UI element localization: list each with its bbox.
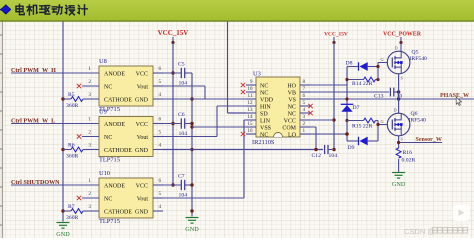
svg-text:VCC: VCC [136, 71, 148, 77]
svg-text:VCC_15V: VCC_15V [324, 32, 348, 38]
svg-text:1: 1 [88, 66, 91, 72]
junction C6/gnd [190, 122, 193, 125]
optocoupler U8 TLP715 [82, 58, 163, 113]
svg-text:VS: VS [288, 97, 296, 103]
svg-text:VSS: VSS [260, 125, 271, 131]
wire U3 VB row [310, 91, 389, 93]
wire gnd bus row y=149.5 [163, 149, 323, 151]
wire SD from top to U3 SD [228, 22, 247, 114]
svg-text:R14 22R: R14 22R [352, 81, 373, 87]
svg-text:12: 12 [247, 100, 253, 106]
svg-text:IRF540: IRF540 [410, 56, 428, 62]
svg-text:G: G [381, 57, 384, 62]
wire VCC_POWER to Q5 drain [395, 43, 402, 52]
junction C5/gnd [190, 97, 193, 100]
svg-text:NC: NC [104, 84, 112, 90]
power port VCC_15V (left) [158, 29, 189, 44]
svg-text:VCC_15V: VCC_15V [158, 29, 189, 37]
resistor R7 360R [63, 204, 99, 221]
svg-text:C13: C13 [374, 93, 384, 99]
svg-text:ANODE: ANODE [104, 183, 125, 189]
wire Ctrl_PWM_W_H to U8 pin1 [11, 72, 99, 74]
junction phase column [397, 97, 400, 100]
svg-text:3: 3 [303, 114, 306, 120]
svg-text:PHASE_W: PHASE_W [440, 93, 469, 99]
resistor R16 0.02R [396, 148, 415, 172]
gnd rail (left, x=63) [62, 22, 64, 222]
driver IC U3 IR2110S [246, 71, 310, 147]
wire Q5 source to Q6 drain (phase column) [394, 74, 399, 113]
power port VCC_15V (right) [324, 32, 348, 45]
svg-text:360R: 360R [66, 215, 79, 221]
wire VCC_15V rail x=334 [333, 43, 335, 150]
svg-text:4: 4 [303, 107, 306, 113]
svg-text:VCC: VCC [136, 183, 148, 189]
wire U3 VCC to rail [310, 119, 334, 121]
svg-text:C7: C7 [178, 174, 185, 180]
capacitor C7 104 [163, 174, 192, 199]
svg-text:R16: R16 [403, 150, 413, 156]
svg-text:G: G [381, 119, 384, 124]
wire U3 VSS to gnd rail [192, 126, 246, 128]
diode D9 [347, 137, 378, 151]
mouse cursor [456, 97, 461, 105]
svg-text:D8: D8 [346, 61, 353, 67]
junction D7 top [345, 97, 348, 100]
svg-text:NC: NC [288, 111, 296, 117]
ground (middle rail) [185, 218, 199, 234]
svg-text:14: 14 [247, 114, 253, 120]
diode D7 [341, 85, 360, 121]
svg-text:16: 16 [247, 128, 253, 134]
junction D8 right [376, 65, 379, 68]
svg-text:R15 22R: R15 22R [352, 124, 373, 130]
junction at R5 [61, 97, 64, 100]
no-connect U3 pin5 [308, 104, 312, 108]
svg-text:TLP715: TLP715 [99, 218, 120, 225]
svg-text:NC: NC [104, 135, 112, 141]
svg-text:4: 4 [159, 204, 162, 210]
wire gate node to Q5 G [378, 57, 387, 80]
wire U3 VS / PHASE_W [310, 98, 474, 100]
svg-text:8: 8 [303, 79, 306, 85]
svg-text:C12: C12 [312, 153, 322, 159]
ground (left rail) [56, 223, 70, 239]
svg-text:2: 2 [88, 129, 91, 135]
wire U3 LO to gate network [310, 121, 347, 142]
svg-text:3: 3 [88, 142, 91, 148]
no-connect U10 pin2 [77, 196, 81, 200]
svg-text:Q6: Q6 [411, 111, 418, 117]
wire Ctrl_SHUTDOWN to U10 pin1 [11, 184, 99, 186]
svg-text:VB: VB [288, 90, 296, 96]
watermark CSDN [404, 227, 468, 236]
no-connect U8 pin2 [77, 84, 81, 88]
svg-text:D7: D7 [353, 105, 360, 111]
junction VSS/gnd [190, 125, 193, 128]
junction gnd bus [190, 148, 193, 151]
svg-text:360R: 360R [66, 103, 79, 109]
ground (Q6 source) [392, 173, 406, 189]
svg-text:TLP715: TLP715 [99, 157, 120, 164]
wire U8 Vout jog [163, 86, 205, 99]
svg-text:CATHODE: CATHODE [104, 209, 132, 215]
junction U8 VCC [171, 71, 174, 74]
svg-text:GND: GND [135, 97, 149, 103]
junction C12 [332, 148, 335, 151]
svg-text:ANODE: ANODE [104, 122, 125, 128]
net label Ctrl_SHUTDOWN [11, 180, 60, 186]
junction C7/gnd [190, 183, 193, 186]
svg-text:VCC_POWER: VCC_POWER [383, 32, 422, 38]
svg-text:VCC: VCC [136, 122, 148, 128]
svg-text:D: D [394, 108, 397, 113]
resistor R6 360R [63, 142, 99, 159]
svg-text:CATHODE: CATHODE [104, 148, 132, 154]
svg-text:CATHODE: CATHODE [104, 97, 132, 103]
svg-text:6: 6 [303, 93, 306, 99]
svg-text:6: 6 [159, 116, 162, 122]
svg-text:0.02R: 0.02R [402, 157, 416, 163]
net label PHASE_W [440, 93, 469, 99]
floating player icon [453, 205, 470, 222]
svg-text:NC: NC [260, 90, 268, 96]
svg-text:6: 6 [159, 178, 162, 184]
wire U10 Vout to U3 LIN [163, 120, 246, 198]
junction gate Q6 [376, 123, 379, 126]
svg-text:D: D [395, 46, 398, 51]
svg-text:U9: U9 [99, 109, 107, 116]
gnd rail (middle, x=192) [191, 73, 193, 217]
svg-text:Vout: Vout [137, 135, 149, 141]
no-connect U3 pin10 [241, 90, 245, 94]
svg-text:5: 5 [159, 129, 162, 135]
svg-text:3: 3 [88, 204, 91, 210]
power port VCC_POWER [383, 32, 422, 45]
svg-text:GND: GND [185, 226, 199, 233]
junction VCC pin3 [332, 118, 335, 121]
capacitor C12 104 [312, 145, 338, 159]
junction U9 VCC [171, 122, 174, 125]
svg-text:1: 1 [88, 178, 91, 184]
junction R15 left [345, 119, 348, 122]
svg-text:LO: LO [288, 132, 297, 138]
junction COM/gnd bus [314, 148, 317, 151]
svg-text:VCC: VCC [284, 118, 296, 124]
svg-text:GND: GND [392, 181, 406, 188]
optocoupler U9 TLP715 [82, 109, 163, 164]
resistor R14 22R [347, 77, 378, 87]
wire gate node to Q6 G [378, 119, 387, 141]
svg-text:GND: GND [56, 231, 70, 238]
svg-text:NC: NC [104, 196, 112, 202]
svg-text:1: 1 [303, 128, 306, 134]
svg-text:NC: NC [288, 104, 296, 110]
svg-text:15: 15 [247, 121, 253, 127]
capacitor C6 104 [163, 112, 192, 137]
svg-text:7: 7 [303, 86, 306, 92]
no-connect U3 pin16 [241, 132, 245, 136]
svg-text:R7: R7 [68, 204, 75, 210]
wire VCC_15V rail x=173 [172, 43, 174, 186]
title bar 电机驱动设计 [0, 0, 474, 21]
svg-text:R6: R6 [68, 142, 75, 148]
svg-text:COM: COM [282, 125, 296, 131]
svg-text:NC: NC [260, 83, 268, 89]
svg-text:U3: U3 [253, 71, 261, 78]
svg-text:Sensor_W: Sensor_W [416, 137, 442, 143]
net label Ctrl_PWM_W_H [11, 68, 56, 74]
junction C13/phase [397, 90, 401, 94]
junction at R7 [61, 209, 64, 212]
svg-text:2: 2 [303, 121, 306, 127]
junction R14 left [345, 78, 348, 81]
junction U10 gnd [190, 209, 193, 212]
svg-text:3: 3 [88, 92, 91, 98]
svg-text:Vout: Vout [137, 84, 149, 90]
wire U8 gnd row to U3 VDD [163, 98, 246, 100]
junction LO [345, 132, 349, 136]
wire U9 Vout to U3 HIN [163, 106, 246, 137]
svg-text:9: 9 [250, 79, 253, 85]
title text 电机驱动设计 (drawn glyphs) [16, 4, 87, 15]
no-connect U3 pin9 [241, 83, 245, 87]
svg-text:CSDN @: CSDN @ [404, 227, 435, 236]
wire Q6 source / Sensor_W [399, 136, 442, 148]
wire U3 COM down to gnd bus [310, 127, 316, 150]
wire U3 HO to gate network [310, 67, 347, 86]
svg-text:GND: GND [135, 209, 149, 215]
svg-text:4: 4 [159, 142, 162, 148]
svg-text:SD: SD [260, 111, 268, 117]
svg-text:U8: U8 [99, 58, 107, 65]
capacitor C5 104 [163, 62, 192, 87]
svg-text:D9: D9 [348, 145, 355, 151]
net label Sensor_W [416, 137, 442, 143]
capacitor C13 10 [374, 88, 402, 100]
svg-text:VDD: VDD [260, 97, 274, 103]
svg-text:ANODE: ANODE [104, 71, 125, 77]
junction U10 VCC [171, 183, 174, 186]
svg-text:104: 104 [179, 80, 188, 86]
svg-text:1: 1 [88, 116, 91, 122]
svg-text:GND: GND [135, 148, 149, 154]
svg-text:IR2110S: IR2110S [252, 139, 275, 146]
svg-text:Q5: Q5 [412, 50, 419, 56]
junction sensor [397, 141, 400, 144]
optocoupler U10 TLP715 [82, 170, 163, 225]
svg-text:13: 13 [247, 107, 253, 113]
svg-text:104: 104 [179, 192, 188, 198]
svg-text:2: 2 [88, 191, 91, 197]
svg-text:5: 5 [159, 79, 162, 85]
svg-text:Vout: Vout [137, 196, 149, 202]
svg-text:5: 5 [159, 191, 162, 197]
net label Ctrl_PWM_W_L [11, 118, 55, 124]
svg-text:5: 5 [303, 100, 306, 106]
svg-text:11: 11 [248, 93, 253, 99]
junction R14 right [376, 78, 379, 81]
svg-text:4: 4 [159, 92, 162, 98]
svg-text:104: 104 [329, 153, 338, 159]
svg-text:104: 104 [179, 131, 188, 137]
resistor R15 22R [347, 118, 378, 130]
mosfet Q6 IRF540 [387, 111, 426, 142]
svg-text:HO: HO [287, 83, 296, 89]
svg-text:NC: NC [260, 132, 268, 138]
svg-text:2: 2 [88, 79, 91, 85]
resistor R5 360R [63, 92, 99, 109]
svg-text:6: 6 [159, 66, 162, 72]
wire Ctrl_PWM_W_L to U9 pin1 [11, 123, 99, 125]
svg-text:360R: 360R [66, 153, 79, 159]
junction at R6 [61, 148, 64, 151]
svg-text:IRF540: IRF540 [409, 118, 427, 124]
no-connect U9 pin2 [77, 134, 81, 138]
diode D8 [346, 61, 379, 71]
svg-text:C6: C6 [178, 112, 185, 118]
svg-text:LIN: LIN [260, 118, 271, 124]
no-connect U3 pin4 [308, 111, 312, 115]
svg-text:R5: R5 [68, 92, 75, 98]
svg-text:C5: C5 [178, 62, 185, 68]
svg-text:U10: U10 [99, 170, 110, 177]
svg-text:10: 10 [247, 86, 253, 92]
mosfet Q5 IRF540 [387, 50, 427, 81]
svg-text:HIN: HIN [260, 104, 271, 110]
